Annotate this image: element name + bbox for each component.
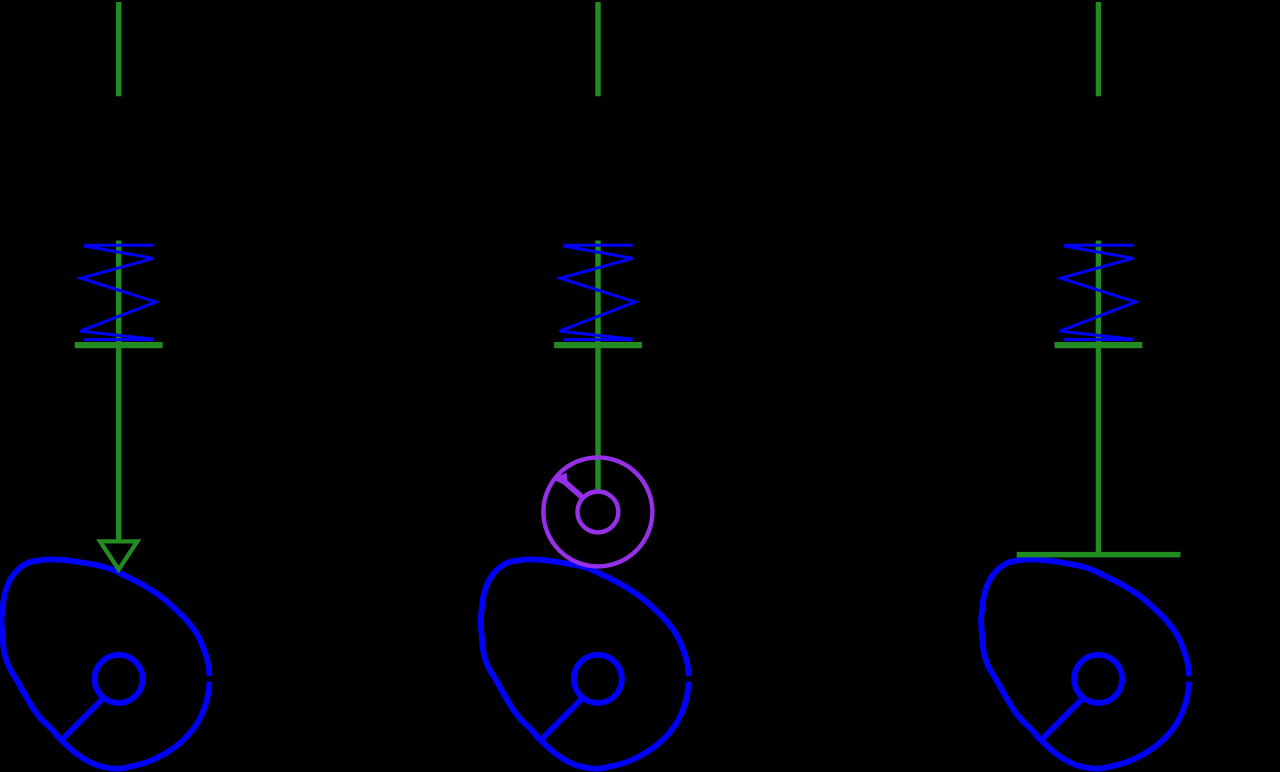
follower rod 1 upper segment bbox=[116, 2, 121, 96]
cam 2 keyway arrowhead bbox=[533, 735, 545, 749]
spring 1 bbox=[80, 245, 156, 339]
cam 3 keyway shaft bbox=[1044, 697, 1084, 737]
cam 2 outline bbox=[481, 559, 689, 768]
cam 1 keyway arrowhead bbox=[54, 735, 66, 749]
cam 1 hub bore bbox=[95, 655, 143, 703]
cam 3 hub bore bbox=[1074, 655, 1122, 703]
spring seat 1 bbox=[75, 342, 163, 348]
follower rod 2 upper segment bbox=[595, 2, 600, 96]
spring seat 3 bbox=[1055, 342, 1143, 348]
cam 3 outline bbox=[981, 559, 1189, 768]
follower rod 2 lower segment bbox=[595, 241, 600, 492]
cam 1 outline bbox=[2, 559, 210, 768]
cam 2 hub bore bbox=[574, 655, 622, 703]
follower rod 1 lower segment bbox=[116, 241, 121, 544]
roller spoke shaft bbox=[566, 483, 584, 499]
roller hub circle bbox=[578, 492, 619, 533]
spring 3 bbox=[1060, 245, 1136, 339]
spring seat 2 bbox=[554, 342, 642, 348]
roller spoke arrowhead bbox=[552, 473, 569, 487]
spring 2 bbox=[560, 245, 636, 339]
flat follower face bbox=[1017, 552, 1181, 558]
cam 1 keyway shaft bbox=[65, 697, 105, 737]
cam 2 keyway shaft bbox=[544, 697, 584, 737]
follower rod 3 upper segment bbox=[1096, 2, 1101, 96]
cam 3 keyway arrowhead bbox=[1034, 735, 1046, 749]
knife-edge arrowhead bbox=[100, 541, 137, 569]
roller outer circle bbox=[543, 457, 652, 566]
follower rod 3 lower segment bbox=[1096, 241, 1101, 553]
